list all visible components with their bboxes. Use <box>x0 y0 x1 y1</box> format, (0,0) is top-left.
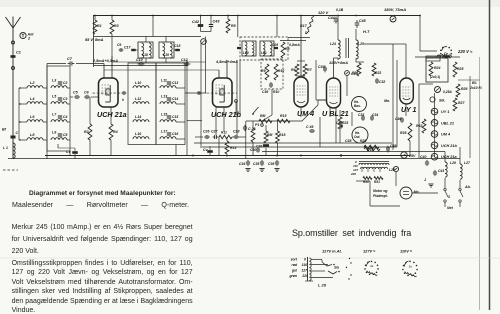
wire IF1 bottom leads <box>145 58 147 63</box>
resistor R30 <box>363 177 372 180</box>
capacitor C18 block <box>175 49 180 51</box>
inductor L1 Bf <box>13 143 15 158</box>
tube UM 4 envelope <box>294 77 308 107</box>
wire choke leads <box>444 152 446 163</box>
wire vertical 206 <box>205 37 207 94</box>
wire UM4 bottom <box>300 107 302 117</box>
resistor R15 inline <box>277 119 290 123</box>
resistor R3 <box>110 20 114 34</box>
wire volume line <box>246 120 302 122</box>
terminal Ant measurement point <box>20 32 26 38</box>
wire right vertical 470 <box>469 76 471 158</box>
wire misc mid <box>252 142 254 156</box>
wire UY1 anode <box>405 44 407 78</box>
wire motor outer loop <box>369 181 371 206</box>
capacitor C10 <box>138 63 141 65</box>
wire bank1 left feed <box>18 88 20 140</box>
wire bottom bus <box>45 155 410 157</box>
trimmer capacitor C15 <box>167 115 171 117</box>
wire 55V row <box>111 34 113 67</box>
wire heater box vertical <box>418 84 420 158</box>
inductor L11 <box>160 86 176 88</box>
scan fold line right edge <box>489 0 491 310</box>
switch Sa contacts <box>322 262 332 266</box>
wire to selector <box>419 16 421 52</box>
net terminals <box>444 200 446 202</box>
capacitor C43 <box>209 24 213 26</box>
inductor L26 filter choke <box>445 162 447 177</box>
svg-text:0: 0 <box>304 258 306 262</box>
wire bus drop left <box>93 16 95 68</box>
wire x320 drop <box>319 117 321 147</box>
svg-text:grøn: grøn <box>288 274 297 278</box>
wire grid line bank2 to UCH21b <box>185 92 206 94</box>
wire heater/power line 143 <box>194 142 392 144</box>
wire pair to R17 <box>288 37 310 39</box>
trimmer capacitor C13 <box>167 81 171 83</box>
output transformer L24 winding <box>338 40 340 59</box>
switch S 0.25A <box>435 87 441 93</box>
svg-text:L 29: L 29 <box>318 283 327 288</box>
resistor R25 <box>453 62 457 77</box>
wire coupling row <box>70 96 73 98</box>
resistor RM inline <box>259 119 272 123</box>
capacitor C44 <box>335 17 337 20</box>
trimmer capacitor C4 <box>58 115 62 117</box>
IF2 cell A outline <box>242 41 256 56</box>
inductor L14 <box>133 120 149 122</box>
resistor R10 <box>274 64 278 80</box>
svg-text:rød: rød <box>292 263 298 267</box>
resistor R18 <box>276 131 280 143</box>
inductor L7 <box>51 120 67 122</box>
inductor Dr choke <box>437 55 451 57</box>
capacitor C26 <box>204 136 206 138</box>
fuse box R24 <box>426 58 448 82</box>
capacitor C46b <box>401 117 403 119</box>
junction bus power <box>340 154 342 156</box>
tube UY 1 envelope <box>400 78 414 104</box>
junction dots on bus <box>94 15 96 17</box>
inductor L4 <box>27 102 43 104</box>
faint scan line across lower page <box>0 257 500 259</box>
resistor R23 <box>338 117 342 129</box>
capacitor C8 at UCH21a grid <box>122 92 124 94</box>
resistor R32 <box>422 119 426 133</box>
trimmer capacitor C2 <box>58 81 62 83</box>
potentiometer P1 <box>252 121 254 128</box>
wire UBL21 leads <box>333 58 335 78</box>
svg-text:110: 110 <box>302 263 308 267</box>
jack circle Ha Out (speaker) <box>352 127 368 143</box>
rotary switch So <box>445 46 447 48</box>
ground power <box>428 183 433 185</box>
wire AVC line y70 <box>104 69 219 71</box>
IF transformer 1 cell A outline <box>138 42 153 58</box>
capacitor C30 to ground <box>257 147 259 149</box>
capacitor C21 inline <box>197 92 199 94</box>
inductor L9 <box>51 138 67 140</box>
wave switch contact row L6 <box>19 121 27 123</box>
resistor R9 <box>265 64 269 80</box>
IF transformer 2 shield box dashed <box>240 37 288 60</box>
inductor L15 <box>160 120 176 122</box>
capacitor C29 block <box>274 47 278 49</box>
capacitor C9 small <box>119 49 121 51</box>
resistor R2 <box>89 97 91 124</box>
wire box1 top to tube <box>47 63 66 65</box>
wire UCH21b output drop <box>235 101 237 115</box>
capacitor C12 <box>184 63 187 65</box>
resistor R29 zigzag <box>364 147 380 151</box>
inductor L2 <box>27 86 43 88</box>
svg-text:3a: 3a <box>409 265 413 269</box>
junction v1 <box>261 124 264 127</box>
wire UCH21a top leads <box>103 64 105 79</box>
rotary switch 110V <box>409 261 411 263</box>
wire box1 left edge to bus <box>46 64 48 159</box>
junction bus dots <box>226 155 228 157</box>
wire top right network <box>415 56 460 58</box>
wire long y36.5 <box>94 36 201 38</box>
resistor R19 <box>364 145 379 149</box>
inductor L18 winding <box>142 43 144 58</box>
wire UM4 top network <box>297 60 305 62</box>
variable capacitor Cv1 with ground <box>57 144 59 148</box>
wire vertical 246 <box>245 121 247 159</box>
inductor L3 <box>51 86 67 88</box>
resistor R13 <box>225 141 229 154</box>
resistor R4 <box>110 107 112 124</box>
trimmer capacitor C16 <box>167 132 171 134</box>
capacitor C28 <box>233 136 235 138</box>
resistor R31 <box>374 177 383 180</box>
wire IF1 top leads <box>145 37 147 43</box>
terminal UCH21b output <box>235 100 238 103</box>
wire vertical 237 <box>236 60 238 137</box>
wire motor loop <box>395 172 397 186</box>
wire heater chain vertical <box>434 104 436 157</box>
wire vertical 240 <box>239 60 241 117</box>
inductor L16 <box>133 137 149 139</box>
resistor R26 <box>456 84 460 97</box>
wire power line 147 <box>200 146 397 148</box>
capacitor C17 block <box>131 49 136 51</box>
antenna A <box>6 17 14 28</box>
wire detector drop <box>271 89 273 115</box>
wire diagonal to UBL grid <box>302 105 318 121</box>
inductor L5 <box>51 102 67 104</box>
wire row 137 <box>195 136 203 138</box>
resistor R6 <box>295 64 299 76</box>
plug tap wires <box>311 259 322 261</box>
wire antenna lead-in <box>12 28 14 159</box>
heater of UCH 21a <box>431 153 438 160</box>
output transformer core <box>345 38 347 58</box>
junction antenna node <box>12 41 15 44</box>
terminal 180V measurement <box>390 16 396 22</box>
text Sp.omstiller heading <box>292 228 411 238</box>
wire B+ top bus <box>93 15 420 17</box>
wire vertical 237 upper <box>237 16 239 38</box>
resistor R7 <box>303 64 307 76</box>
text paragraph Merkur <box>12 224 193 231</box>
wire box2 drop 176 <box>175 145 177 156</box>
inductor L13 <box>160 102 176 104</box>
capacitor C41 <box>434 170 436 172</box>
autotransformer taps <box>361 168 363 172</box>
terminal 25V <box>401 152 407 158</box>
inductor L12 <box>133 102 149 104</box>
capacitor C36 block <box>263 144 269 147</box>
wire speaker link <box>346 76 348 96</box>
capacitor C46 <box>309 130 311 132</box>
resistor R35 <box>408 123 412 141</box>
capacitor C7 top of box1 <box>68 63 71 65</box>
capacitor C23 <box>244 125 246 127</box>
wire transformer leads <box>337 16 339 41</box>
svg-text:gul: gul <box>291 269 297 273</box>
capacitor C42 <box>198 24 204 27</box>
inductor L8 <box>27 138 43 140</box>
wave switch contact row L8 <box>19 139 27 141</box>
wire UY1 bottom <box>405 104 407 116</box>
wire drop 219 <box>218 137 220 156</box>
svg-text:127V ≈: 127V ≈ <box>363 249 376 254</box>
resistor R17 diagonal <box>306 16 314 34</box>
capacitor C35 <box>340 123 342 125</box>
trimmer capacitor C14 <box>167 97 171 99</box>
heater of UY 1 <box>431 108 438 115</box>
terminal measurement point osc <box>201 39 207 45</box>
svg-text:Sa: Sa <box>334 265 340 270</box>
heater of UM 4 <box>431 131 438 138</box>
resistor R1 <box>93 20 97 34</box>
resistor R8 <box>281 42 285 58</box>
jack circle Mn (pickup) <box>352 97 367 112</box>
capacitor C28 block <box>237 47 241 49</box>
motor terminal small <box>393 166 398 171</box>
tube UCH 21b envelope <box>213 78 233 107</box>
wave switch contact row L4 <box>19 103 27 105</box>
capacitor C32 <box>376 78 378 80</box>
text heading Maalepunkter <box>29 190 176 197</box>
capacitor C45 <box>356 20 358 23</box>
junction below C1 <box>12 67 15 70</box>
svg-text:3a: 3a <box>370 264 374 268</box>
selector box <box>426 56 440 61</box>
motor circle Mo <box>400 187 412 199</box>
detector box dashed <box>261 59 283 89</box>
switch Ab contacts <box>444 178 446 188</box>
variable capacitor Cv2 with ground <box>207 150 213 153</box>
inductor L27 filter choke <box>460 164 462 179</box>
wire AVC line y62 long <box>112 61 206 63</box>
trimmer capacitor C3 <box>58 97 62 99</box>
resistor R11 <box>219 135 232 139</box>
text paragraph Omstillingsstikproppen <box>12 260 193 267</box>
trimmer capacitor C5 <box>58 133 62 135</box>
capacitor C40 <box>426 160 428 162</box>
page edge line right <box>479 57 481 310</box>
capacitor C39 <box>324 66 326 69</box>
heater of UBL 21 <box>431 120 438 127</box>
capacitor C49 <box>387 146 389 149</box>
svg-text:sort: sort <box>291 258 298 262</box>
wire UCH21b top leads <box>218 70 220 78</box>
autotransformer L29 winding <box>307 257 309 281</box>
capacitor C5 grid coupling <box>74 96 76 98</box>
wire power line 151 <box>262 151 445 153</box>
autotransformer L28 winding <box>359 163 389 165</box>
switch lever detector <box>253 107 259 114</box>
text measurement row <box>12 201 189 209</box>
capacitor C27 <box>213 136 215 138</box>
wire AVC to bank <box>187 120 202 122</box>
coil box 1 outline <box>47 66 70 151</box>
capacitor C37 in detector <box>270 82 272 84</box>
capacitor C2 block on antenna line <box>11 136 16 139</box>
switch contact dots right <box>349 258 350 259</box>
heater of UCH 21b <box>431 142 438 149</box>
terminal UBL grid point <box>345 71 350 76</box>
inductor L19 winding <box>163 43 165 58</box>
wire UBL21 grid feed <box>315 60 317 100</box>
junction bottom bus at 193 <box>192 155 194 157</box>
capacitor C33 <box>362 115 364 117</box>
IF2 cell B outline <box>260 41 274 56</box>
wire bank2 vertical right <box>186 60 188 156</box>
wire C42C43 join <box>200 16 202 25</box>
inductor L6 <box>27 120 43 122</box>
wire right verticals <box>392 44 394 150</box>
resistor R24 <box>429 62 433 76</box>
svg-text:127V m.At.: 127V m.At. <box>322 249 342 254</box>
output transformer L25 winding <box>356 40 358 59</box>
capacitor C34 to ground <box>247 160 249 162</box>
rotary switch 127V <box>371 261 373 263</box>
resistor RM2 <box>264 131 268 143</box>
capacitor C34b <box>371 115 373 117</box>
tube UCH 21a envelope <box>99 78 119 107</box>
inductor L21 winding <box>263 42 265 56</box>
resistor R5 <box>226 19 230 33</box>
wire vertical 201 <box>200 43 202 146</box>
tube UBL 21 envelope <box>327 78 341 108</box>
capacitor C1 <box>11 55 16 58</box>
wire IF2 feed <box>276 16 278 38</box>
coil box 2b outline <box>156 63 185 145</box>
dashed stub bottom left <box>3 169 18 171</box>
wire right stub <box>458 79 480 81</box>
inductor L20 winding <box>245 42 247 56</box>
wire UCH21b cathode pins <box>215 107 217 135</box>
fuse Sik <box>430 97 435 102</box>
resistor R27 <box>453 98 457 111</box>
wave switch contact row L2 <box>19 87 27 89</box>
wire chassis line lower <box>8 158 460 160</box>
capacitor C36 to ground <box>276 160 278 162</box>
inductor L10 <box>133 86 149 88</box>
IF transformer 1 cell B outline <box>159 42 174 58</box>
capacitor C6 grid coupling <box>84 96 86 98</box>
svg-text:110V ≈: 110V ≈ <box>400 249 413 254</box>
wire heater top link <box>434 93 436 104</box>
inductor L17 <box>160 137 176 139</box>
resistor R21 <box>357 63 361 76</box>
coil box 2 outline <box>128 63 156 145</box>
resistor R22 <box>372 63 376 76</box>
capacitor C35 to ground <box>261 160 263 162</box>
